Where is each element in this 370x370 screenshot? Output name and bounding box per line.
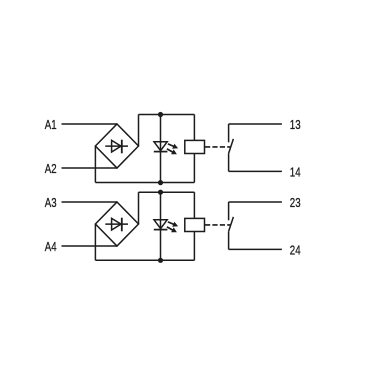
wire coil to bottom rail ch1 (193, 154, 195, 183)
wire terminal 14 (229, 170, 282, 172)
junction bottom ch1 (158, 180, 163, 185)
wire coil to bottom rail ch2 (193, 232, 195, 261)
mechanical link K1 (dashed) (205, 146, 230, 148)
contact K1 lower stub (228, 153, 230, 171)
wire terminal 13 (229, 123, 282, 125)
svg-text:A4: A4 (45, 240, 57, 254)
contact K2 lower stub (228, 231, 230, 249)
wire LED branch ch1 (160, 115, 162, 183)
junction top ch1 (158, 112, 163, 117)
LED D2 light arrow 1 (168, 222, 178, 227)
wire terminal 24 (229, 248, 282, 250)
wire A3 to bridge (62, 201, 118, 203)
wire bridge minus to bottom rail ch2 (94, 224, 96, 260)
mechanical link K2 (dashed) (205, 224, 230, 226)
contact K1 movable blade (229, 139, 234, 154)
svg-text:24: 24 (290, 244, 301, 258)
LED D1 cathode bar (154, 151, 168, 153)
contact K1 fixed terminal stub (228, 124, 230, 142)
svg-text:A3: A3 (45, 196, 57, 210)
bridge rectifier G1 diamond (95, 124, 138, 168)
bridge G1 diode cathode bar (121, 140, 123, 154)
wire top rail to coil ch2 (193, 192, 195, 218)
wire bridge plus to top rail ch2 (138, 192, 140, 224)
wire LED branch ch2 (160, 192, 162, 260)
bridge G2 diode triangle (112, 218, 121, 230)
wire A4 to bridge (62, 245, 118, 247)
svg-text:A2: A2 (45, 162, 57, 176)
wire bridge plus to top rail (138, 115, 140, 147)
bridge G1 diode line (105, 145, 128, 147)
LED D2 light arrow 2 (167, 227, 177, 232)
LED D2 cathode bar (154, 229, 168, 231)
LED D1 light arrow 1 (168, 144, 178, 149)
LED D1 light arrow 2 (167, 149, 177, 154)
bridge G2 diode line (105, 223, 128, 225)
bridge G1 diode triangle (112, 140, 121, 152)
svg-text:23: 23 (290, 196, 301, 210)
bridge rectifier G2 diamond (95, 202, 138, 246)
contact K2 fixed terminal stub (228, 202, 230, 220)
svg-text:A1: A1 (45, 118, 57, 132)
wire bridge minus to bottom rail (94, 146, 96, 183)
relay coil K2 (185, 218, 205, 231)
relay coil K1 (185, 140, 205, 153)
wire top rail ch1 (139, 114, 195, 116)
contact K2 movable blade (229, 217, 234, 232)
wire bottom rail ch1 (95, 182, 194, 184)
svg-text:14: 14 (290, 166, 301, 180)
junction bottom ch2 (158, 258, 163, 263)
svg-text:13: 13 (290, 118, 301, 132)
wire bottom rail ch2 (95, 259, 194, 261)
wire A1 to bridge (62, 123, 118, 125)
wire A2 to bridge (62, 167, 118, 169)
bridge G2 diode cathode bar (121, 218, 123, 232)
wire top rail to coil ch1 (193, 115, 195, 141)
wire top rail ch2 (139, 191, 195, 193)
junction top ch2 (158, 190, 163, 195)
LED D2 triangle (154, 220, 167, 229)
wire terminal 23 (229, 201, 282, 203)
LED D1 triangle (154, 142, 167, 151)
